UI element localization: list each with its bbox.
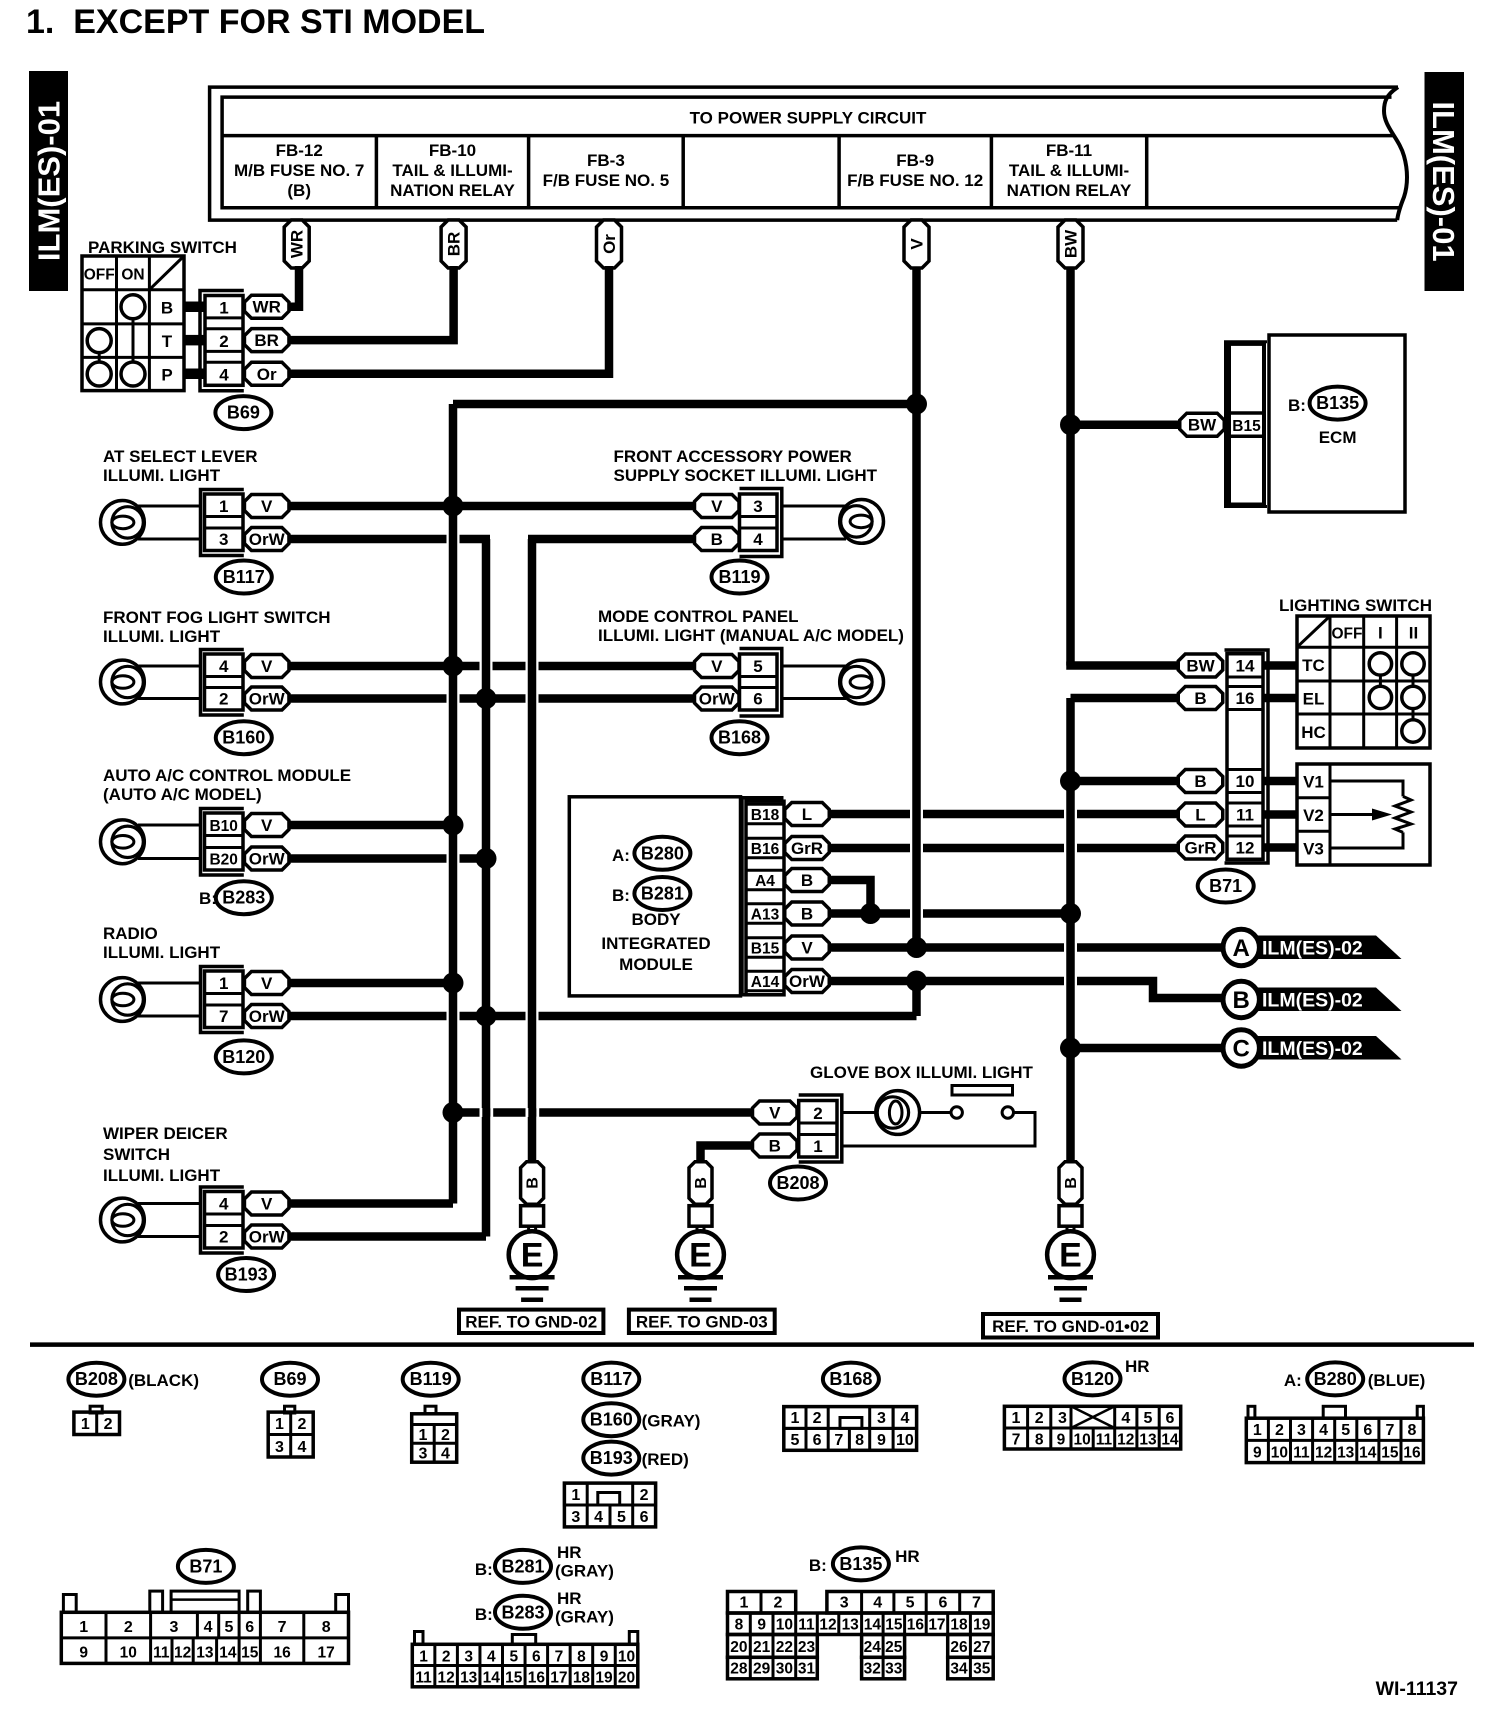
parking switch row labels B T P	[161, 299, 173, 385]
svg-text:V: V	[711, 657, 723, 676]
bulb front fog light switch illumi light	[101, 660, 145, 704]
svg-text:11: 11	[1236, 806, 1254, 825]
connector oval B160	[216, 721, 272, 754]
svg-text:B: B	[1233, 987, 1250, 1014]
svg-text:B71: B71	[1209, 876, 1242, 896]
svg-text:2: 2	[813, 1410, 822, 1427]
svg-text:TC: TC	[1302, 656, 1325, 675]
wire V row3 to trunk	[289, 821, 453, 830]
connector B119 bracket	[740, 489, 782, 557]
svg-text:B71: B71	[189, 1556, 222, 1576]
svg-text:1: 1	[740, 1595, 749, 1612]
junction V trunk glove branch	[443, 1102, 464, 1123]
svg-text:V3: V3	[1303, 840, 1324, 859]
svg-text:1: 1	[813, 1137, 822, 1156]
connector oval B280	[634, 837, 690, 870]
ground GND-02 holder stubs	[529, 1226, 536, 1234]
svg-text:OrW: OrW	[789, 972, 826, 991]
svg-text:PARKING SWITCH: PARKING SWITCH	[88, 238, 237, 257]
svg-text:B208: B208	[776, 1173, 819, 1193]
svg-text:5: 5	[1144, 1410, 1153, 1427]
svg-text:A13: A13	[751, 907, 780, 924]
wire V row1 B117 to B119	[289, 502, 695, 511]
wire-color tag L BIM pin B18	[785, 803, 830, 826]
svg-text:A4: A4	[755, 873, 775, 890]
svg-text:FRONT FOG LIGHT SWITCH: FRONT FOG LIGHT SWITCH	[103, 608, 331, 627]
fuse cell divider 3	[681, 136, 685, 208]
svg-text:MODE CONTROL PANEL: MODE CONTROL PANEL	[598, 607, 799, 626]
lighting switch link II column TC-EL	[1412, 675, 1415, 686]
svg-text:BW: BW	[1062, 229, 1081, 258]
svg-text:FB-11: FB-11	[1046, 141, 1092, 160]
power supply circuit box inner border	[222, 97, 1400, 208]
pinout B117 oval	[583, 1363, 639, 1396]
svg-text:8: 8	[1408, 1422, 1417, 1439]
svg-text:14: 14	[1236, 657, 1255, 676]
svg-text:35: 35	[973, 1660, 991, 1677]
svg-text:FB-9: FB-9	[896, 151, 934, 170]
connector oval B208	[770, 1167, 826, 1200]
lighting switch rheostat box	[1297, 764, 1430, 865]
svg-text:4: 4	[753, 530, 763, 549]
svg-text:9: 9	[1253, 1445, 1262, 1462]
connector tag Or (from FB-3)	[597, 220, 622, 268]
svg-text:B:: B:	[612, 886, 630, 905]
svg-text:V: V	[261, 657, 273, 676]
wire-color tag GrR BIM pin B16	[785, 837, 830, 860]
svg-text:FB-12: FB-12	[276, 141, 323, 160]
svg-text:16: 16	[907, 1617, 925, 1634]
ground GND-01-02 wire-color tag B	[1059, 1162, 1082, 1205]
svg-text:Or: Or	[257, 365, 277, 384]
svg-text:BODY: BODY	[631, 910, 681, 929]
svg-text:B119: B119	[718, 567, 760, 587]
svg-text:(B): (B)	[287, 181, 311, 200]
svg-text:19: 19	[595, 1670, 613, 1687]
svg-text:BW: BW	[1188, 416, 1217, 435]
svg-text:1: 1	[790, 1410, 799, 1427]
svg-text:V: V	[261, 974, 273, 993]
wire L from BIM B18 to lighting switch pin 11 (breaks at trunks)	[829, 810, 1178, 819]
svg-text:L: L	[1195, 806, 1205, 825]
wire-color tag V B208 pin 2	[753, 1101, 798, 1124]
wire V distribution trunk (x=453)	[449, 404, 458, 1204]
wire BR pin2 to FB-10 tag	[289, 266, 454, 340]
svg-text:ILLUMI. LIGHT: ILLUMI. LIGHT	[103, 627, 221, 646]
svg-text:OFF: OFF	[84, 267, 115, 284]
connector B193 pin box	[205, 1192, 244, 1249]
svg-text:OrW: OrW	[249, 530, 286, 549]
svg-text:A: A	[1233, 935, 1250, 962]
bulb lead bottom B119	[782, 538, 846, 541]
svg-text:5: 5	[617, 1509, 626, 1526]
parking switch to connector stubs	[184, 302, 205, 380]
bulb lead bottom B283	[138, 857, 201, 860]
pinout B281/B283 connector	[412, 1632, 638, 1687]
junction B trunk / A13 wire	[1060, 903, 1081, 924]
wire-color tag BW B71 pin 14	[1178, 654, 1223, 677]
wire-color tag BR pin 2	[244, 329, 289, 352]
svg-text:12: 12	[1236, 839, 1255, 858]
connector oval B135	[1310, 387, 1366, 420]
svg-text:34: 34	[950, 1660, 968, 1677]
svg-text:9: 9	[757, 1617, 766, 1634]
svg-text:BR: BR	[445, 232, 464, 257]
wire OrW segment from BIM A14 junction down to radio OrW branch	[912, 981, 921, 1016]
pinout B119 connector	[412, 1406, 457, 1462]
wire B16 from lighting switch to B trunk corner	[1071, 694, 1179, 703]
junction V trunk row2	[443, 656, 464, 677]
svg-text:14: 14	[483, 1670, 501, 1687]
svg-text:NATION RELAY: NATION RELAY	[390, 181, 515, 200]
svg-text:2: 2	[219, 1228, 228, 1247]
label RADIO ILLUMI. LIGHT	[103, 924, 221, 962]
svg-text:M/B FUSE NO. 7: M/B FUSE NO. 7	[234, 161, 364, 180]
svg-text:ECM: ECM	[1319, 428, 1357, 447]
ref box GND-03	[629, 1310, 775, 1333]
bulb lead top B283	[138, 824, 201, 827]
pinout B208 connector	[74, 1406, 120, 1434]
wire BW corner to lighting switch BW tag	[1071, 662, 1179, 666]
lighting switch header diagonal	[1297, 616, 1330, 647]
bulb lead top B120	[138, 982, 201, 985]
svg-text:V: V	[711, 497, 723, 516]
wire-color tag OrW B283 pin B20	[244, 847, 289, 870]
svg-text:15: 15	[885, 1617, 903, 1634]
svg-text:B20: B20	[209, 852, 237, 869]
svg-text:FB-10: FB-10	[429, 141, 476, 160]
svg-text:V: V	[801, 939, 813, 958]
svg-text:10: 10	[1271, 1445, 1288, 1462]
wire-color tag OrW B168 pin 6	[695, 687, 740, 710]
connector B208 pin box	[799, 1101, 837, 1158]
junction B trunk / arrow C	[1060, 1038, 1081, 1059]
connector B283 pin box	[205, 813, 244, 870]
connector B283 bracket	[201, 809, 244, 876]
wire B from BIM A4 down to A13 junction	[829, 880, 870, 914]
svg-text:26: 26	[950, 1639, 968, 1656]
svg-text:B119: B119	[410, 1369, 452, 1389]
svg-text:B: B	[1194, 689, 1206, 708]
bulb front accessory socket illumi light	[840, 500, 884, 544]
power supply circuit box outer border	[210, 87, 1398, 220]
svg-text:ILLUMI. LIGHT: ILLUMI. LIGHT	[103, 943, 221, 962]
wire V branch to glove box	[453, 1108, 753, 1117]
pinout B160 oval and (GRAY)	[583, 1403, 700, 1436]
svg-text:15: 15	[505, 1670, 523, 1687]
svg-text:12: 12	[438, 1670, 455, 1687]
junction A4/A13 B wires	[860, 903, 881, 924]
svg-text:A:: A:	[612, 846, 630, 865]
svg-text:7: 7	[555, 1649, 564, 1666]
svg-text:18: 18	[573, 1670, 591, 1687]
svg-text:REF. TO GND-01•02: REF. TO GND-01•02	[992, 1317, 1149, 1336]
svg-text:1: 1	[81, 1416, 90, 1433]
connector oval B117	[216, 561, 272, 594]
connector B69 bracket	[200, 291, 244, 391]
svg-text:V: V	[261, 1195, 273, 1214]
bulb wiper deicer switch illumi light	[101, 1198, 145, 1242]
junction OrW trunk row4	[476, 1006, 497, 1027]
svg-text:13: 13	[460, 1670, 478, 1687]
lighting switch row labels	[1301, 656, 1326, 742]
wire-color tag V B168 pin 5	[695, 655, 740, 678]
svg-text:NATION RELAY: NATION RELAY	[1007, 181, 1132, 200]
glove box switch contact right	[1002, 1107, 1013, 1118]
wire B ground trunk to GND-02 (x=532)	[528, 539, 537, 1161]
svg-text:B: B	[801, 871, 813, 890]
svg-text:6: 6	[753, 690, 762, 709]
svg-text:B: B	[711, 530, 723, 549]
svg-text:LIGHTING SWITCH: LIGHTING SWITCH	[1279, 596, 1432, 615]
svg-text:29: 29	[753, 1660, 771, 1677]
svg-text:(GRAY): (GRAY)	[642, 1412, 701, 1431]
svg-text:WIPER DEICER: WIPER DEICER	[103, 1124, 228, 1143]
label FRONT FOG LIGHT SWITCH ILLUMI. LIGHT	[103, 608, 331, 646]
ground GND-02 E circle	[509, 1231, 556, 1278]
pinout B119 oval	[403, 1363, 459, 1396]
junction V trunk / BIM B15	[906, 937, 927, 958]
svg-text:25: 25	[885, 1639, 903, 1656]
wire V row5 to trunk bottom corner	[289, 1199, 453, 1208]
label AT SELECT LEVER ILLUMI. LIGHT	[103, 447, 258, 485]
lighting switch contact circle HC-II	[1402, 720, 1424, 742]
left page banner ILM(ES)-01	[29, 71, 68, 291]
svg-text:1: 1	[219, 974, 228, 993]
connector B208 bracket	[799, 1095, 842, 1162]
lighting switch column labels	[1332, 624, 1419, 643]
svg-text:17: 17	[928, 1617, 945, 1634]
svg-text:5: 5	[224, 1619, 233, 1636]
wire-color tag V B160 pin 4	[244, 655, 289, 678]
svg-text:11: 11	[415, 1670, 432, 1687]
svg-text:V2: V2	[1303, 806, 1324, 825]
svg-text:GrR: GrR	[1184, 839, 1216, 858]
svg-text:B18: B18	[751, 807, 780, 824]
fuse cell divider 6	[1145, 136, 1149, 208]
svg-text:4: 4	[900, 1410, 909, 1427]
svg-text:7: 7	[1385, 1422, 1394, 1439]
lighting switch contact grid	[1297, 616, 1430, 748]
svg-text:B: B	[525, 1177, 542, 1189]
svg-text:V: V	[261, 497, 273, 516]
ground GND-02 ground bars	[510, 1277, 555, 1300]
wire Or pin4 to FB-3 tag	[289, 266, 609, 374]
svg-text:20: 20	[618, 1670, 635, 1687]
junction OrW riser / BIM A14	[906, 971, 927, 992]
lighting switch contact circle TC-I	[1369, 653, 1391, 675]
wire-color tag V B193 pin 4	[244, 1192, 289, 1215]
svg-text:WI-11137: WI-11137	[1376, 1678, 1458, 1700]
svg-text:3: 3	[753, 497, 762, 516]
svg-text:4: 4	[298, 1439, 307, 1456]
wire-color tag B B71 pin 16	[1178, 687, 1223, 710]
svg-text:20: 20	[730, 1639, 747, 1656]
pinout B117/B160/B193 connector	[564, 1483, 655, 1527]
right page banner ILM(ES)-01	[1425, 72, 1465, 291]
svg-text:5: 5	[753, 657, 762, 676]
svg-text:10: 10	[120, 1645, 137, 1662]
svg-text:5: 5	[1341, 1422, 1350, 1439]
svg-text:HC: HC	[1301, 723, 1326, 742]
bulb lead top B193	[138, 1202, 201, 1205]
bulb radio illumi light	[101, 978, 145, 1022]
svg-text:HR: HR	[895, 1547, 920, 1566]
svg-text:2: 2	[219, 690, 228, 709]
svg-text:B15: B15	[751, 941, 780, 958]
wire-color tag V BIM pin B15	[785, 936, 830, 959]
svg-text:17: 17	[318, 1645, 335, 1662]
connector oval B193	[218, 1258, 274, 1291]
svg-text:1: 1	[419, 1649, 428, 1666]
wire-color tag BW ECM pin B15	[1180, 413, 1225, 436]
pinout B280 labels A: oval (BLUE)	[1284, 1362, 1425, 1395]
connector B117 bracket	[201, 490, 244, 556]
pinout B71 connector	[61, 1591, 348, 1663]
BIM pin strip box	[746, 801, 784, 995]
svg-text:GLOVE BOX ILLUMI. LIGHT: GLOVE BOX ILLUMI. LIGHT	[810, 1063, 1034, 1082]
svg-text:3: 3	[877, 1410, 886, 1427]
svg-text:8: 8	[577, 1649, 586, 1666]
pinout B135 connector	[728, 1592, 994, 1679]
svg-text:28: 28	[730, 1660, 748, 1677]
wire B ground trunk to GND-01-02 (x=1070.5)	[1066, 698, 1075, 1161]
svg-text:B: B	[1063, 1177, 1080, 1189]
svg-text:2: 2	[441, 1427, 450, 1444]
bulb lead bottom B193	[138, 1235, 201, 1238]
wire-color tag Or pin 4	[244, 362, 289, 385]
svg-text:A14: A14	[751, 974, 780, 991]
wire V from BIM B15 to arrow A (break at B trunk)	[829, 943, 1224, 952]
bulb AT select lever illumi light	[101, 501, 145, 545]
svg-text:3: 3	[170, 1619, 179, 1636]
wire-color tag B B208 pin 1	[753, 1134, 798, 1157]
svg-text:B16: B16	[751, 841, 780, 858]
svg-text:13: 13	[1337, 1445, 1355, 1462]
svg-text:4: 4	[441, 1446, 450, 1463]
svg-text:2: 2	[1275, 1422, 1284, 1439]
wire OrW row4 radio to BIM A14 riser (breaks at V and B trunks)	[289, 1012, 917, 1021]
svg-text:6: 6	[938, 1595, 947, 1612]
fuse cell divider 1	[375, 136, 379, 208]
lighting switch contact circle TC-II	[1402, 653, 1424, 675]
svg-text:9: 9	[79, 1645, 88, 1662]
wire OrW row1 B117 to OrW trunk corner (break at V trunk)	[289, 535, 490, 544]
wire B10 from lighting switch to B trunk	[1071, 777, 1179, 786]
wire-color tag OrW B193 pin 2	[244, 1225, 289, 1248]
ground GND-01-02 ground bars	[1048, 1277, 1093, 1300]
bulb lead bottom B117	[138, 538, 201, 541]
svg-text:11: 11	[798, 1617, 815, 1634]
svg-text:I: I	[1378, 624, 1383, 643]
svg-text:6: 6	[640, 1509, 649, 1526]
svg-text:(GRAY): (GRAY)	[555, 1608, 614, 1627]
svg-text:6: 6	[245, 1619, 254, 1636]
junction OrW trunk row3	[476, 848, 497, 869]
svg-text:3: 3	[1297, 1422, 1306, 1439]
svg-text:C: C	[1233, 1036, 1250, 1063]
ground GND-03 connector body	[689, 1206, 712, 1227]
wire BW trunk to ECM B15	[1071, 420, 1180, 429]
svg-text:ILM(ES)-02: ILM(ES)-02	[1262, 1038, 1363, 1060]
svg-text:14: 14	[219, 1645, 237, 1662]
connector B160 pin box	[205, 654, 244, 710]
svg-text:B:: B:	[809, 1556, 827, 1575]
svg-text:EL: EL	[1303, 690, 1325, 709]
bulb lead top B168	[782, 665, 846, 668]
bulb lead top B119	[782, 505, 846, 508]
ground GND-02 connector body	[521, 1206, 544, 1227]
ground GND-02 wire-color tag B	[521, 1162, 544, 1205]
wire-color tag L B71 pin 11	[1178, 803, 1223, 826]
svg-text:B168: B168	[718, 728, 761, 748]
off-page arrow A ILM(ES)-02	[1223, 929, 1402, 965]
svg-text:P: P	[161, 366, 172, 385]
connector B71 pin strip bracket	[1225, 650, 1269, 863]
svg-text:TAIL & ILLUMI-: TAIL & ILLUMI-	[392, 161, 512, 180]
svg-text:2: 2	[219, 332, 228, 351]
svg-text:OrW: OrW	[249, 1007, 286, 1026]
ground GND-01-02 holder stubs	[1067, 1226, 1074, 1234]
svg-text:T: T	[162, 332, 173, 351]
fuse FB-3 label	[543, 151, 670, 190]
connector B120 bracket	[201, 967, 244, 1033]
lighting switch contact circle EL-I	[1369, 686, 1391, 708]
svg-text:1: 1	[79, 1619, 88, 1636]
svg-text:B117: B117	[590, 1369, 632, 1389]
svg-text:4: 4	[219, 1195, 229, 1214]
bulb lead bottom B120	[138, 1015, 201, 1018]
(already drawn B trunk)	[531, 539, 533, 1161]
parking switch contact circle ON row B	[121, 295, 145, 319]
junction B trunk / pin 10	[1060, 771, 1081, 792]
ref box GND-02	[459, 1310, 603, 1333]
svg-text:B281: B281	[641, 884, 684, 904]
svg-text:2: 2	[774, 1595, 783, 1612]
svg-text:FRONT ACCESSORY POWER: FRONT ACCESSORY POWER	[614, 447, 852, 466]
connector oval B283	[216, 881, 272, 914]
stub B71 pin to switch row y=665.5	[1263, 661, 1297, 670]
ECM pin strip box	[1229, 344, 1264, 505]
lighting switch link II column EL-HC	[1412, 709, 1415, 720]
svg-text:HR: HR	[557, 1543, 582, 1562]
fuse cell divider 5	[990, 136, 994, 208]
wire-color tag V B117 pin 1	[244, 495, 289, 518]
svg-text:B:: B:	[1288, 396, 1306, 415]
lighting switch link I column	[1379, 675, 1382, 686]
svg-text:23: 23	[798, 1639, 816, 1656]
svg-text:B:: B:	[475, 1560, 493, 1579]
svg-text:5: 5	[790, 1432, 799, 1449]
svg-text:4: 4	[873, 1595, 882, 1612]
fuse FB-11 label	[1007, 141, 1132, 200]
rheostat resistor zigzag	[1395, 796, 1411, 832]
svg-text:AUTO A/C CONTROL MODULE: AUTO A/C CONTROL MODULE	[103, 766, 351, 785]
svg-text:B283: B283	[501, 1602, 544, 1622]
svg-text:9: 9	[1057, 1432, 1066, 1449]
svg-text:B: B	[769, 1137, 781, 1156]
off-page arrow C ILM(ES)-02	[1223, 1030, 1402, 1066]
svg-text:14: 14	[1161, 1432, 1179, 1449]
svg-text:4: 4	[594, 1509, 603, 1526]
pinout B208 oval and (BLACK)	[68, 1363, 199, 1396]
svg-text:SWITCH: SWITCH	[103, 1145, 170, 1164]
svg-text:2: 2	[813, 1104, 822, 1123]
svg-text:OFF: OFF	[1332, 626, 1363, 643]
svg-text:6: 6	[1363, 1422, 1372, 1439]
svg-text:Or: Or	[600, 234, 619, 254]
svg-text:16: 16	[273, 1645, 291, 1662]
